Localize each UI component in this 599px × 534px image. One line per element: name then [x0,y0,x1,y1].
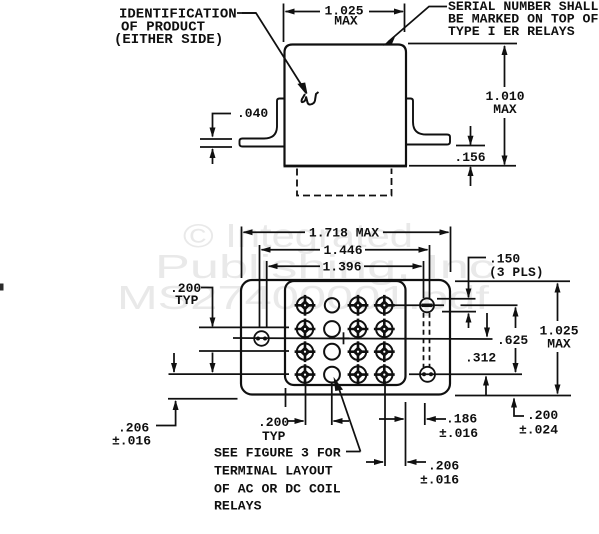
horizontal centerline through mounting holes [233,338,493,339]
col4 extension below [384,381,386,466]
serial leader arrowhead [386,37,395,45]
dim 1.010 MAX: top extension [408,43,517,45]
svg-text:.625: .625 [497,333,528,348]
svg-text:TYPE I ER RELAYS: TYPE I ER RELAYS [448,24,575,39]
svg-text:RELAYS: RELAYS [214,499,262,514]
svg-text:.200: .200 [527,408,558,423]
screw terminals column 4 [374,295,395,316]
dim 1.446: right extension (through holes) [429,245,431,298]
row2 extension line left [199,326,289,328]
plain terminals column 2 [325,298,339,312]
hole centerline stub below [424,403,426,425]
svg-text:.206: .206 [428,459,459,474]
svg-text:1.396: 1.396 [322,260,361,275]
svg-text:MAX: MAX [334,14,358,29]
bottom extension line left [168,398,238,400]
col1 extension below [305,382,307,425]
dim 1.025 MAX right: upper up arrow [557,284,559,322]
dim 1.025 MAX top: left arrow segment [286,11,321,13]
dim .625: lower down arrow [515,348,517,372]
dim 1.025 MAX top: right arrow segment [369,11,403,13]
dim .156: body bottom extension right [409,165,516,167]
dim 1.396: right extension (through holes) [423,261,425,298]
center cross mark [338,337,350,339]
dim 1.025 MAX top: right extension [404,4,406,33]
inner edge stub below [285,388,287,407]
hole bottom edge extension [442,311,476,313]
dim .200 TYP bottom: right arrow [334,420,350,422]
svg-text:±.016: ±.016 [420,473,459,488]
dim .625: upper up arrow [515,308,517,329]
dim 1.446: right arrow [365,249,428,251]
bottom extension line right [455,395,571,397]
dim .156: upper down arrow [470,126,472,145]
dim 1.718 MAX: right arrow [383,231,449,233]
dim 1.025 MAX right: lower down arrow [557,352,559,394]
dim 1.446: left arrow [262,249,321,251]
dim .040: lower up arrow [212,149,214,164]
svg-text:(EITHER SIDE): (EITHER SIDE) [114,32,223,48]
svg-text:.186: .186 [446,412,477,427]
dim .040: foot top extension [200,138,232,140]
svg-text:.312: .312 [465,351,496,366]
dim .156: foot bottom extension right [456,145,485,147]
leader to serial number note [388,7,447,43]
dim .206 +-.016 right: left arrow [366,461,383,463]
left mounting bracket [240,99,285,147]
terminal block outline [285,281,406,385]
dim 1.396: left extension [266,261,268,327]
row4 extension line left [169,373,290,375]
dim 1.010 MAX: lower segment down arrow [504,118,506,165]
dim 1.010 MAX: upper segment up arrow [504,46,506,87]
bottom right mounting hole [420,367,435,382]
dim .200 TYP left: leader with down arrow [201,288,213,327]
svg-text:.040: .040 [237,106,268,121]
dim .040: leader elbow with down arrow [213,114,232,137]
dim 1.446: left extension [259,245,261,327]
dim .206 +-.016 left: lower up arrow + leader [156,401,176,426]
relay body (side view) [285,45,407,167]
dim 1.718 MAX: left extension [241,227,243,279]
top right mounting hole [420,298,434,312]
dim 1.718 MAX: right extension [450,227,452,273]
leader to SEE FIGURE 3 note [338,385,361,452]
hole top edge extension [437,298,476,300]
svg-text:TYP: TYP [175,293,199,308]
base flange outline [241,280,450,395]
dim .186 +-.016: right arrow [427,418,446,420]
svg-text:MAX: MAX [547,337,571,352]
svg-text:TERMINAL LAYOUT: TERMINAL LAYOUT [214,464,333,479]
leader from identification note [237,13,304,89]
identification leader arrowhead [299,84,307,94]
dim .312: lower up arrow [485,377,487,397]
dim .312: upper down arrow [486,313,488,337]
dim 1.718 MAX: left arrow [244,231,306,233]
svg-text:±.024: ±.024 [519,423,558,438]
dim .200 TYP bottom: left arrow [288,420,304,422]
col2 extension below [331,382,333,425]
svg-text:OF AC OR DC COIL: OF AC OR DC COIL [214,482,341,497]
leader .150 (3 PLS) [469,258,487,298]
svg-text:TYP: TYP [262,429,286,444]
row1 extension line right [394,304,444,306]
inner right edge extension below [405,402,407,466]
identification squiggle mark [302,92,319,105]
dim .150 lower up arrow [468,314,470,328]
svg-text:±.016: ±.016 [112,434,151,449]
row3 extension line left [199,350,289,352]
screw terminals column 3 [348,295,369,316]
svg-text:SEE FIGURE 3 FOR: SEE FIGURE 3 FOR [214,446,341,461]
dim 1.396: right arrow [364,265,422,267]
left mounting hole [254,331,269,346]
svg-text:±.016: ±.016 [439,426,478,441]
dim .156: lower up arrow [470,167,472,186]
dim .186 +-.016: left arrow [379,418,404,420]
right mounting bracket [406,99,450,145]
dim 1.025 MAX right: top extension [455,280,570,282]
dim .200 +-.024 leader [514,399,524,417]
dim 1.396: left arrow [269,265,320,267]
dim .206 +-.016 right: right arrow [408,461,427,463]
dim 1.025 MAX top: left extension [283,4,285,43]
body bottom edge [284,165,408,168]
svg-text:1.446: 1.446 [323,243,362,258]
svg-text:1.718 MAX: 1.718 MAX [309,226,379,241]
svg-text:.156: .156 [454,150,485,165]
screw terminals column 1 [295,295,316,316]
terminals [254,295,435,385]
scan artifact dash at left edge [0,284,4,291]
dim .200 TYP left: second down arrow [212,353,214,373]
hidden terminal header (dashed) [297,169,392,196]
svg-text:(3 PLS): (3 PLS) [489,265,544,280]
row4 extension line right [409,373,522,375]
dim .206 +-.016 left: upper down arrow [173,353,175,372]
svg-text:.200: .200 [258,415,289,430]
dim .040: foot bottom extension [200,146,232,148]
svg-text:MAX: MAX [493,102,517,117]
